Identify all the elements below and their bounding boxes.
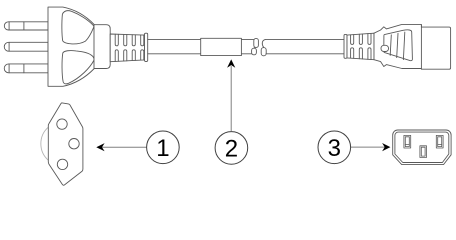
- face view hexagon arc: [41, 127, 48, 160]
- C13 face outline: [393, 130, 451, 165]
- head grip inner panel: [384, 30, 413, 61]
- callout 2 leader: [230, 66, 232, 131]
- callout 3 arrowhead: [382, 143, 390, 151]
- head grip/body junction: [420, 25, 422, 69]
- C13 boot: [347, 33, 374, 60]
- callout 1 circle: [147, 131, 180, 164]
- C13 boot end cap: [344, 34, 347, 58]
- strain relief top slots: [115, 34, 144, 46]
- pin bottom: [4, 64, 48, 73]
- grip ridges: [390, 32, 405, 60]
- boot bottom slots: [351, 48, 371, 60]
- boot top slots: [351, 33, 371, 44]
- cable break left mark: [252, 38, 259, 54]
- plug body bottom lobe: [62, 51, 94, 84]
- face view hexagon: [48, 103, 83, 185]
- strain relief bottom slots: [115, 50, 144, 62]
- svg-text:3: 3: [328, 135, 341, 162]
- C13 face inner outline: [395, 132, 449, 162]
- cable right segment: [265, 40, 344, 54]
- C13 face slot right: [436, 135, 443, 148]
- pin middle: [4, 42, 48, 51]
- plug body top lobe: [62, 11, 94, 44]
- svg-text:1: 1: [156, 135, 169, 162]
- C13 connector head: [374, 25, 451, 70]
- pin top: [4, 22, 48, 30]
- cable break right mark: [261, 40, 266, 56]
- plug strain relief: [110, 34, 144, 62]
- plug body: [48, 7, 94, 86]
- callout 3 leader: [351, 146, 386, 148]
- face hole middle: [69, 139, 79, 149]
- cable left segment: [148, 40, 254, 54]
- C13 face slot left: [404, 135, 411, 148]
- strain relief end cap: [145, 33, 148, 61]
- C13 face slot center: [420, 146, 427, 158]
- svg-text:2: 2: [225, 136, 238, 163]
- callout 2 circle: [215, 132, 248, 165]
- callout 2 arrowhead: [227, 59, 235, 67]
- callout 1 leader: [101, 146, 147, 148]
- grip slot: [381, 45, 389, 51]
- callout 1 arrowhead: [96, 143, 104, 151]
- cable label: [201, 38, 242, 55]
- face hole top: [57, 119, 67, 129]
- face hole bottom: [57, 159, 67, 169]
- callout 3 circle: [318, 131, 351, 164]
- plug collar: [94, 25, 110, 69]
